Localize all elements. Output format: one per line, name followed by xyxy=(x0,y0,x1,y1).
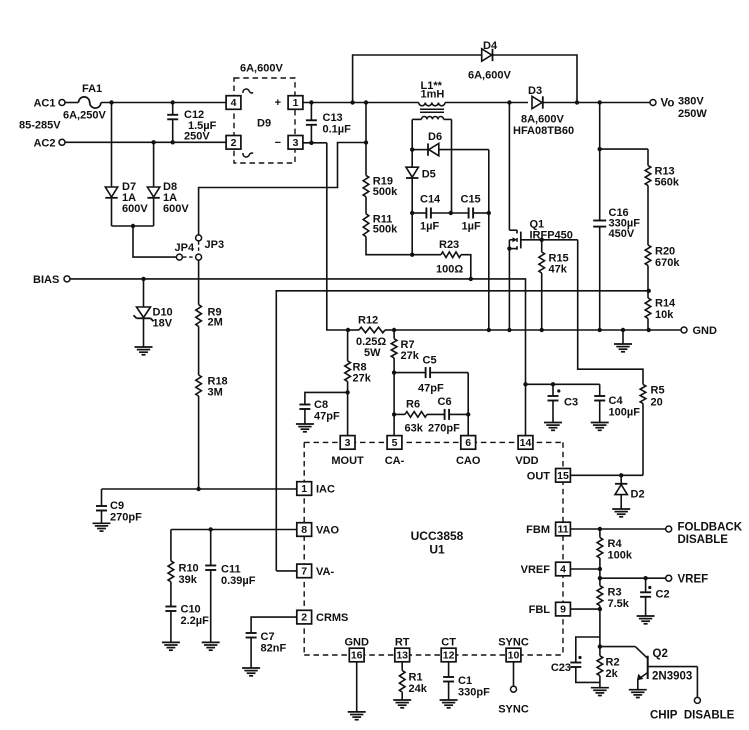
svg-text:2k: 2k xyxy=(606,668,619,680)
svg-text:VREF: VREF xyxy=(521,564,551,576)
svg-text:R12: R12 xyxy=(358,315,378,327)
svg-text:C7: C7 xyxy=(261,631,275,643)
svg-text:FBM: FBM xyxy=(526,524,550,536)
svg-text:450V: 450V xyxy=(609,228,635,240)
svg-text:4: 4 xyxy=(231,97,237,109)
svg-text:C15: C15 xyxy=(461,194,481,206)
svg-text:560k: 560k xyxy=(655,177,680,189)
svg-text:380V: 380V xyxy=(678,96,704,108)
svg-text:R4: R4 xyxy=(608,538,623,550)
svg-text:18V: 18V xyxy=(153,318,173,330)
svg-text:100k: 100k xyxy=(608,550,633,562)
svg-text:9: 9 xyxy=(560,604,566,616)
svg-text:JP4: JP4 xyxy=(175,242,195,254)
svg-text:2.2µF: 2.2µF xyxy=(181,615,210,627)
svg-text:D4: D4 xyxy=(483,40,498,52)
svg-text:3: 3 xyxy=(293,137,299,149)
svg-text:85-285V: 85-285V xyxy=(19,120,61,132)
svg-text:C8: C8 xyxy=(314,399,328,411)
svg-text:8: 8 xyxy=(301,524,307,536)
svg-text:3M: 3M xyxy=(208,386,223,398)
svg-text:600V: 600V xyxy=(122,203,148,215)
svg-text:6A,600V: 6A,600V xyxy=(240,63,283,75)
svg-text:47pF: 47pF xyxy=(314,411,340,423)
svg-text:C2: C2 xyxy=(656,589,670,601)
svg-text:1mH: 1mH xyxy=(421,89,445,101)
svg-text:10: 10 xyxy=(508,650,520,662)
svg-text:10k: 10k xyxy=(655,309,674,321)
svg-text:R23: R23 xyxy=(439,239,459,251)
svg-text:R13: R13 xyxy=(655,165,675,177)
svg-text:OUT: OUT xyxy=(527,471,551,483)
svg-text:5: 5 xyxy=(392,437,398,449)
svg-text:R2: R2 xyxy=(606,657,620,669)
svg-text:SYNC: SYNC xyxy=(498,637,529,649)
svg-text:7: 7 xyxy=(301,566,307,578)
svg-text:100Ω: 100Ω xyxy=(436,264,463,276)
svg-text:7.5k: 7.5k xyxy=(608,598,630,610)
svg-text:D2: D2 xyxy=(631,489,645,501)
svg-text:CA-: CA- xyxy=(385,455,405,467)
svg-text:MOUT: MOUT xyxy=(331,455,364,467)
svg-text:47pF: 47pF xyxy=(418,383,444,395)
svg-text:Vo: Vo xyxy=(661,98,675,110)
svg-text:−: − xyxy=(275,137,281,149)
svg-text:R6: R6 xyxy=(406,399,420,411)
svg-text:63k: 63k xyxy=(405,423,424,435)
svg-text:8A,600V: 8A,600V xyxy=(521,114,564,126)
svg-text:670k: 670k xyxy=(655,257,680,269)
svg-text:CRMS: CRMS xyxy=(316,612,348,624)
svg-text:FBL: FBL xyxy=(529,604,551,616)
svg-text:C1: C1 xyxy=(458,675,472,687)
svg-text:C10: C10 xyxy=(181,604,201,616)
svg-text:82nF: 82nF xyxy=(261,643,287,655)
svg-text:VDD: VDD xyxy=(515,455,538,467)
svg-text:16: 16 xyxy=(351,650,363,662)
svg-text:500k: 500k xyxy=(373,186,398,198)
svg-text:R3: R3 xyxy=(608,587,622,599)
svg-text:C14: C14 xyxy=(420,194,441,206)
svg-text:14: 14 xyxy=(520,437,532,449)
svg-text:D5: D5 xyxy=(422,169,436,181)
svg-text:C23: C23 xyxy=(551,662,571,674)
svg-text:FOLDBACK: FOLDBACK xyxy=(678,522,743,534)
svg-text:U1: U1 xyxy=(429,543,445,557)
svg-text:CAO: CAO xyxy=(456,455,481,467)
svg-text:BIAS: BIAS xyxy=(33,274,59,286)
svg-text:AC1: AC1 xyxy=(33,98,55,110)
svg-text:250W: 250W xyxy=(678,108,707,120)
svg-text:R10: R10 xyxy=(179,563,199,575)
svg-text:330pF: 330pF xyxy=(458,687,490,699)
svg-text:D3: D3 xyxy=(528,85,542,97)
svg-text:C6: C6 xyxy=(438,396,452,408)
svg-text:C13: C13 xyxy=(323,112,343,124)
svg-text:DISABLE: DISABLE xyxy=(678,534,729,546)
svg-text:HFA08TB60: HFA08TB60 xyxy=(513,125,574,137)
svg-text:20: 20 xyxy=(651,397,663,409)
svg-text:VREF: VREF xyxy=(678,574,709,586)
svg-text:11: 11 xyxy=(557,524,568,536)
svg-text:AC2: AC2 xyxy=(33,137,55,149)
svg-text:13: 13 xyxy=(396,650,408,662)
svg-text:CHIP DISABLE: CHIP DISABLE xyxy=(650,710,735,722)
svg-text:3: 3 xyxy=(345,437,351,449)
svg-text:1µF: 1µF xyxy=(420,221,439,233)
svg-text:R14: R14 xyxy=(655,298,676,310)
svg-text:UCC3858: UCC3858 xyxy=(411,529,464,543)
svg-text:2: 2 xyxy=(301,612,307,624)
svg-text:600V: 600V xyxy=(163,203,189,215)
svg-text:GND: GND xyxy=(693,325,718,337)
svg-text:D9: D9 xyxy=(257,118,271,130)
svg-text:2N3903: 2N3903 xyxy=(652,671,692,683)
svg-text:27k: 27k xyxy=(353,373,372,385)
svg-text:C9: C9 xyxy=(110,500,124,512)
svg-text:24k: 24k xyxy=(409,683,428,695)
svg-text:6A,600V: 6A,600V xyxy=(468,70,511,82)
svg-text:RT: RT xyxy=(395,637,410,649)
svg-text:VAO: VAO xyxy=(316,525,339,537)
svg-text:0.39µF: 0.39µF xyxy=(221,575,256,587)
svg-text:VA-: VA- xyxy=(316,566,334,578)
svg-text:CT: CT xyxy=(441,637,456,649)
svg-text:D6: D6 xyxy=(428,131,442,143)
svg-text:15: 15 xyxy=(557,470,569,482)
svg-text:1µF: 1µF xyxy=(462,221,481,233)
svg-text:12: 12 xyxy=(443,650,455,662)
svg-text:R5: R5 xyxy=(651,385,665,397)
svg-text:R20: R20 xyxy=(655,246,675,258)
svg-text:39k: 39k xyxy=(179,574,198,586)
svg-text:C4: C4 xyxy=(609,395,624,407)
svg-text:270pF: 270pF xyxy=(428,423,460,435)
svg-text:47k: 47k xyxy=(549,264,568,276)
svg-text:GND: GND xyxy=(344,637,369,649)
svg-text:IAC: IAC xyxy=(316,484,335,496)
svg-text:0.1µF: 0.1µF xyxy=(323,124,352,136)
svg-text:C5: C5 xyxy=(423,355,437,367)
svg-text:100µF: 100µF xyxy=(609,407,641,419)
svg-text:270pF: 270pF xyxy=(110,512,142,524)
svg-text:5W: 5W xyxy=(364,347,381,359)
svg-text:JP3: JP3 xyxy=(205,239,225,251)
svg-text:C3: C3 xyxy=(564,397,578,409)
svg-text:1: 1 xyxy=(293,97,299,109)
svg-text:2M: 2M xyxy=(208,317,223,329)
svg-text:SYNC: SYNC xyxy=(498,704,529,716)
svg-text:C11: C11 xyxy=(221,564,241,576)
svg-text:R1: R1 xyxy=(409,672,423,684)
svg-text:1: 1 xyxy=(301,483,307,495)
svg-text:6: 6 xyxy=(465,437,471,449)
svg-text:250V: 250V xyxy=(184,131,210,143)
svg-text:27k: 27k xyxy=(401,350,420,362)
svg-text:500k: 500k xyxy=(373,224,398,236)
svg-text:FA1: FA1 xyxy=(82,83,102,95)
svg-text:Q2: Q2 xyxy=(653,648,668,660)
svg-text:2: 2 xyxy=(231,137,237,149)
svg-text:4: 4 xyxy=(560,564,566,576)
svg-text:6A,250V: 6A,250V xyxy=(63,110,106,122)
svg-text:+: + xyxy=(275,97,281,109)
